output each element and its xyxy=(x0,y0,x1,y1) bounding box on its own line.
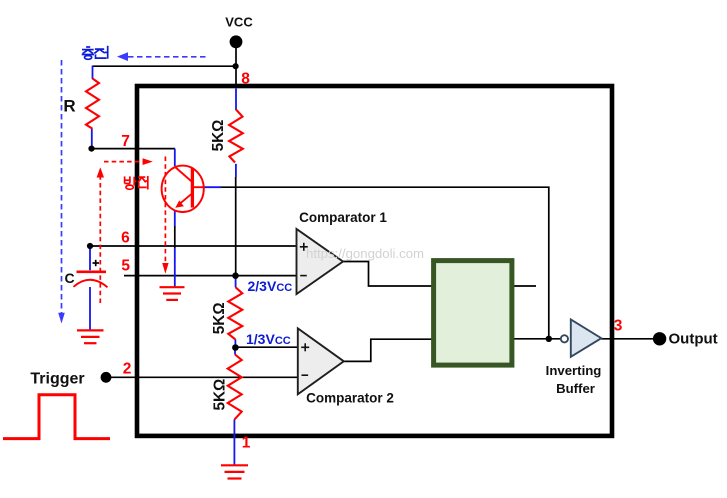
wire mid resistor to 1/3 node stub xyxy=(234,339,236,348)
svg-text:5KΩ: 5KΩ xyxy=(211,302,228,334)
wire bottom resistor to ground pin 1 xyxy=(233,420,235,466)
svg-text:Buffer: Buffer xyxy=(556,381,595,396)
svg-text:VCC: VCC xyxy=(225,15,253,30)
wire 2/3 node to mid resistor stub xyxy=(235,276,237,288)
wire 1/3VCC node to comparator2 plus xyxy=(235,346,297,348)
svg-text:6: 6 xyxy=(121,229,130,246)
wire pin 8 inside stub xyxy=(235,88,237,110)
resistor R xyxy=(86,79,99,129)
inverting buffer U3 xyxy=(561,335,568,342)
node junction R/pin7 xyxy=(88,146,94,152)
svg-text:5KΩ: 5KΩ xyxy=(210,120,227,152)
resistor 5KOhm top (pin8 to 2/3 node) xyxy=(229,110,243,163)
ground under transistor emitter xyxy=(160,287,185,300)
trigger input pulse waveform xyxy=(3,395,110,439)
svg-text:1: 1 xyxy=(242,434,251,451)
node output terminal dot xyxy=(653,332,666,345)
svg-text:Output: Output xyxy=(669,330,718,347)
svg-text:7: 7 xyxy=(121,133,130,150)
svg-text:Trigger: Trigger xyxy=(30,371,84,388)
wire capacitor bottom to ground xyxy=(89,287,91,330)
wire pin 2 trigger to comparator2 minus xyxy=(106,376,298,378)
svg-text:C: C xyxy=(64,270,74,286)
svg-text:Comparator 2: Comparator 2 xyxy=(306,390,394,405)
wire 1/3 node to bottom resistor stub xyxy=(234,348,236,355)
wire pin 5 horizontal to comparator1 minus xyxy=(124,275,297,277)
wire top horizontal VCC to R xyxy=(93,65,236,67)
svg-text:https://gongdoli.com: https://gongdoli.com xyxy=(306,246,424,261)
svg-text:Comparator 1: Comparator 1 xyxy=(299,210,387,225)
wire VCC stem to pin 8 xyxy=(235,47,237,85)
svg-text:2: 2 xyxy=(123,360,132,377)
label bangjeon (discharge) korean hand-drawn xyxy=(125,176,148,190)
resistor 5KOhm bottom (1/3 to gnd) xyxy=(228,355,242,420)
node VCC terminal dot xyxy=(230,35,243,48)
svg-text:Inverting: Inverting xyxy=(546,363,602,378)
IC body outline xyxy=(137,86,612,436)
wire capacitor top xyxy=(89,246,91,270)
node buffer input junction xyxy=(546,336,552,342)
wire pin 7 horizontal xyxy=(92,148,176,150)
node 1/3VCC xyxy=(232,344,239,351)
wire R top stub xyxy=(92,66,94,79)
transistor Q1 discharge xyxy=(162,166,204,212)
wire flip-flop top output stub xyxy=(513,285,537,287)
wire transistor base to flip-flop column xyxy=(221,187,549,339)
comparator 2 op-amp xyxy=(298,328,344,394)
wire pin 6 horizontal xyxy=(90,245,297,247)
capacitor C xyxy=(74,272,108,288)
svg-text:5: 5 xyxy=(121,258,130,275)
wire buffer output to pin 3 Output xyxy=(601,338,655,340)
resistor 5KOhm middle (2/3 to 1/3) xyxy=(228,287,242,339)
charge path blue dashed arrow (charging) xyxy=(62,57,208,313)
wire comparator1 output to flip-flop xyxy=(343,262,433,287)
flip-flop block xyxy=(434,261,512,366)
ground pin 1 xyxy=(221,465,248,478)
wire transistor base stub xyxy=(204,186,221,188)
node junction VCC/R xyxy=(233,63,239,69)
comparator 1 op-amp xyxy=(297,229,344,294)
wire R bottom stub xyxy=(91,129,93,147)
ground under capacitor xyxy=(77,330,104,343)
wire pin7 to transistor collector xyxy=(174,149,176,167)
node trigger terminal dot xyxy=(101,372,112,383)
svg-text:5KΩ: 5KΩ xyxy=(211,379,228,411)
svg-text:R: R xyxy=(63,97,75,116)
node junction pin6/C xyxy=(87,243,93,249)
svg-text:3: 3 xyxy=(614,318,623,335)
wire comparator2 output to flip-flop xyxy=(344,339,434,361)
discharge path red dashed arrows xyxy=(100,157,165,304)
wire transistor emitter to ground xyxy=(174,211,176,227)
capacitor plus sign xyxy=(93,260,100,266)
node 2/3VCC xyxy=(232,272,239,279)
svg-text:8: 8 xyxy=(241,70,250,87)
label chungjeon (charge) korean hand-drawn xyxy=(82,46,108,60)
wire flip-flop bottom output to buffer xyxy=(513,338,562,340)
wire divider column pin8 resistor to 2/3 node xyxy=(235,164,237,177)
